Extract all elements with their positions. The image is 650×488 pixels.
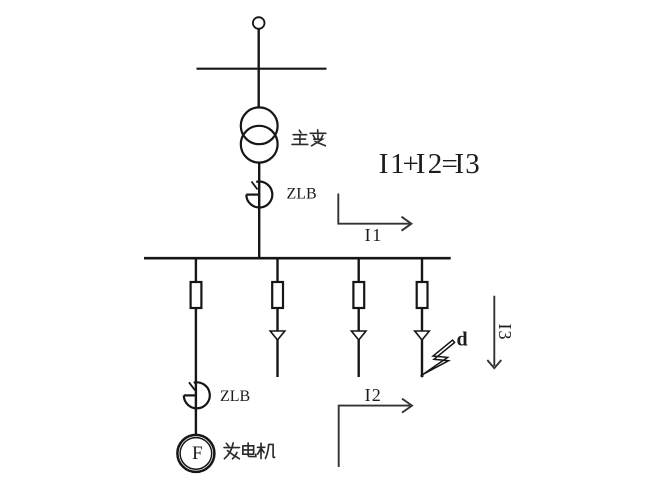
current arrow I1 (elbow) [338,194,411,231]
feeder 3 load arrow (open triangle) [351,331,366,340]
变 [310,130,326,146]
busbar: main bus [144,257,451,260]
current arrow I2 (elbow) [339,399,412,467]
wire: reactor ZLB2 to generator [195,383,197,435]
transformer T1 main (主变) secondary winding [241,126,278,163]
current arrow I3 (vertical down) [487,296,501,368]
fault lightning symbol d [423,340,455,375]
reactor ZLB2 center tap line [184,394,197,396]
breaker CB1 (rectangle) [191,282,202,308]
wire: feeder 4 breaker to fault point [421,308,423,376]
reactor ZLB2 arc body [184,382,210,408]
机 [257,443,274,458]
电 [243,443,256,457]
generator F outer circle [177,435,214,472]
label: 发电机 (generator, drawn glyphs) [224,443,275,459]
svg-text:F: F [192,443,203,464]
generator F inner circle [180,438,212,470]
node: top terminal circle [253,17,265,29]
wire: vertical through reactor ZLB1 to busbar [258,182,260,258]
transformer T1 main (主变) primary winding [241,107,278,144]
wire: feeder 1 drop from bus to breaker [195,258,197,282]
feeder 2 load arrow (open triangle) [270,331,285,340]
reactor ZLB2 hook mark [189,382,195,390]
svg-text:d: d [457,329,468,351]
wire: feeder 3 breaker to load arrow [358,308,360,377]
svg-text:I2: I2 [365,385,381,405]
wire: transformer to reactor ZLB1 [258,163,260,182]
svg-text:I1: I1 [365,225,382,245]
node: upper system bar [197,68,327,70]
wire: feeder 4 drop from bus to breaker [421,258,423,282]
主 [292,130,308,144]
wire: feeder 3 drop from bus to breaker [358,258,360,282]
wire: feeder 2 drop from bus to breaker [276,258,278,282]
fault point dot [420,374,423,377]
发 [224,443,239,459]
breaker CB3 (rectangle) [353,282,364,308]
reactor ZLB1 arc body [246,182,272,208]
reactor ZLB1 hook mark [252,182,258,190]
reactor ZLB1 center tap line [246,194,259,196]
wire: top lead from terminal to transformer [258,29,260,108]
wire: feeder 1 breaker to reactor ZLB2 [195,308,197,383]
svg-text:I1+I2=I3: I1+I2=I3 [379,148,480,180]
feeder 4 load arrow (open triangle) [415,331,430,340]
svg-text:ZLB: ZLB [220,388,250,405]
svg-text:ZLB: ZLB [287,186,317,203]
wire: feeder 2 breaker to load arrow [276,308,278,377]
svg-text:I3: I3 [495,324,515,341]
breaker CB2 (rectangle) [272,282,283,308]
label: 主变 (main transformer, drawn glyphs) [292,130,326,146]
breaker CB4 (rectangle) [417,282,428,308]
